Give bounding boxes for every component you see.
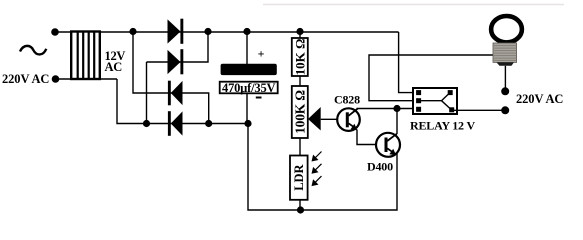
wire: row2 left vertical — [147, 32, 209, 63]
node: top rail / secondary-top junction — [129, 28, 136, 35]
LDR — [290, 156, 308, 200]
base arrow into divider — [308, 107, 321, 131]
diode D3 — [168, 81, 183, 106]
node: 10K top junction — [296, 28, 303, 35]
node: capacitor bottom junction — [244, 120, 251, 127]
wire: top rail from input terminal to right corner — [55, 31, 399, 33]
wire: secondary bottom to bridge — [117, 79, 248, 124]
wire: base wire to C828 — [321, 118, 338, 120]
node: input top terminal — [51, 28, 59, 36]
svg-text:100K Ω: 100K Ω — [293, 90, 308, 134]
node: D1-D2 cathodes junction — [204, 28, 211, 35]
svg-text:+: + — [258, 47, 265, 61]
faint top border remnant — [263, 4, 564, 6]
wire: bottom primary wire from input terminal — [56, 78, 118, 80]
resistor R1 10K — [292, 38, 308, 76]
wire: lamp bottom lead — [504, 66, 506, 92]
svg-text:470µf/35V: 470µf/35V — [222, 81, 275, 95]
node: collector junction with D400 — [393, 105, 400, 112]
LDR light arrow 3 — [312, 176, 322, 186]
capacitor C1 470uf/35V — [220, 47, 278, 98]
wire: secondary top to D3 — [133, 32, 209, 124]
transistor Q2 D400 — [376, 133, 400, 157]
svg-text:220V AC: 220V AC — [2, 72, 49, 86]
wire: relay NO contact to output terminal — [453, 109, 505, 111]
diode D4 — [168, 111, 183, 136]
lamp L1 — [491, 16, 522, 66]
wire: 100K-LDR link — [299, 138, 301, 156]
resistor R2 100K — [292, 86, 308, 138]
svg-text:RELAY 12 V: RELAY 12 V — [410, 119, 475, 133]
node: output top terminal — [501, 87, 509, 95]
svg-text:AC: AC — [105, 60, 123, 74]
wire: crossover vertical row2-left to row4 junction — [146, 62, 148, 124]
node: LDR bottom rail junction — [297, 206, 304, 213]
wire: C828 collector to relay pin3 — [357, 108, 417, 110]
svg-text:D400: D400 — [367, 160, 393, 174]
wire: C828 emitter to D400 base — [357, 130, 376, 145]
wire: negative rail down and bottom rail — [248, 124, 397, 211]
svg-text:220V AC: 220V AC — [516, 92, 563, 106]
node: secondary-bottom / D4 junction — [143, 120, 150, 127]
node: capacitor top junction — [243, 28, 250, 35]
wire: D400 collector vertical — [396, 109, 398, 135]
wire: lamp feed from relay common — [369, 55, 493, 101]
wire: vertical drop to relay pin1 — [399, 32, 416, 93]
svg-text:C828: C828 — [334, 93, 360, 107]
node: input bottom terminal — [52, 75, 60, 83]
wire: LDR bottom lead — [299, 200, 301, 210]
svg-text:10K Ω: 10K Ω — [293, 39, 308, 76]
transistor Q1 C828 — [337, 108, 360, 131]
LDR light arrow 2 — [312, 164, 322, 174]
node: D3-D4 anodes junction — [205, 120, 212, 127]
svg-text:LDR: LDR — [292, 163, 306, 190]
wire: 10K top lead — [299, 32, 301, 39]
diode D1 — [168, 19, 184, 44]
AC source symbol ~ — [20, 46, 46, 55]
wire: capacitor bottom lead — [246, 93, 248, 123]
relay RL1 — [413, 88, 457, 114]
transformer T1 12V AC — [71, 32, 100, 80]
node: output bottom terminal — [501, 106, 509, 114]
wire: capacitor top lead — [246, 32, 248, 65]
LDR light arrow 1 — [312, 152, 322, 162]
wire: 10K-100K link — [299, 76, 301, 86]
diode D2 — [168, 49, 184, 74]
